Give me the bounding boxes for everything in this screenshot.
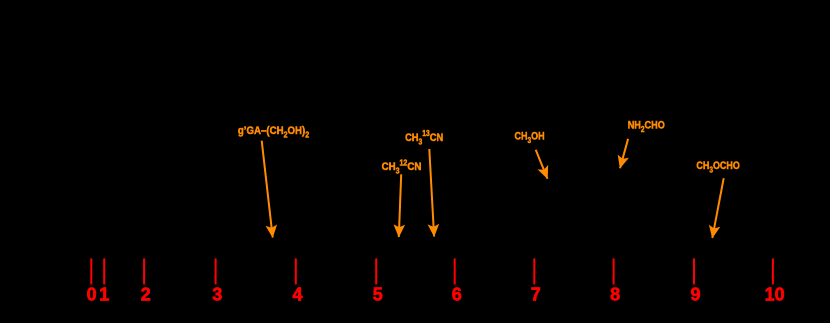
tick 2	[143, 258, 145, 284]
label CH3OCHO	[696, 160, 740, 174]
svg-text:9: 9	[690, 284, 700, 304]
tick 4	[295, 258, 297, 284]
svg-text:2: 2	[141, 284, 151, 304]
tick 1	[103, 258, 105, 284]
tick 5	[375, 258, 377, 284]
svg-text:1: 1	[99, 284, 109, 304]
axis number 10	[765, 284, 785, 304]
arrow from CH3 13CN to axis	[429, 149, 434, 237]
axis number 6	[452, 284, 462, 304]
axis number 5	[373, 284, 383, 304]
arrow from g'GA-(CH2OH)2 to axis	[262, 141, 273, 238]
arrow from CH3OCHO to axis	[712, 178, 723, 238]
axis number 4	[292, 284, 302, 304]
axis number 1	[99, 284, 109, 304]
tick 9	[693, 258, 695, 284]
label CH3OH	[515, 131, 545, 145]
axis number 7	[531, 284, 541, 304]
label CH3 12CN	[382, 158, 422, 176]
tick 8	[613, 258, 615, 284]
axis number 2	[141, 284, 151, 304]
tick 0	[90, 258, 92, 284]
axis number 3	[212, 284, 222, 304]
axis number 9	[690, 284, 700, 304]
label NH2CHO	[628, 120, 665, 134]
svg-text:5: 5	[373, 284, 383, 304]
tick 6	[454, 258, 456, 284]
axis number 0	[87, 284, 97, 304]
svg-text:4: 4	[292, 284, 302, 304]
svg-text:6: 6	[452, 284, 462, 304]
label CH3 13CN	[405, 129, 443, 147]
tick 10	[772, 258, 774, 284]
svg-text:10: 10	[765, 284, 785, 304]
arrow from CH3OH to spectrum	[536, 150, 548, 179]
svg-text:7: 7	[531, 284, 541, 304]
svg-text:8: 8	[610, 284, 620, 304]
arrow from CH3 12CN to axis	[399, 174, 401, 237]
tick 3	[215, 258, 217, 284]
axis number 8	[610, 284, 620, 304]
arrow from NH2CHO to spectrum	[620, 139, 628, 168]
svg-text:0: 0	[87, 284, 97, 304]
label g'GA-(CH2OH)2	[238, 126, 309, 140]
tick 7	[533, 258, 535, 284]
svg-text:3: 3	[212, 284, 222, 304]
